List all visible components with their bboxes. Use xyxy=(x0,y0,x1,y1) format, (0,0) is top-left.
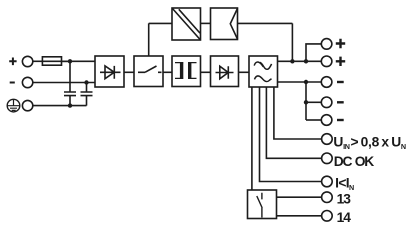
wire S1 to T1 xyxy=(163,71,172,73)
capacitor C2 (- to PE) xyxy=(81,83,93,106)
wire F1 to DC OK signal xyxy=(266,87,321,158)
node junction PE/C1 xyxy=(68,103,72,107)
terminal Uin signal xyxy=(322,134,333,145)
terminal output -2 xyxy=(321,97,332,108)
node junction -/C2 xyxy=(84,80,88,84)
terminal output -1 xyxy=(321,77,332,88)
feedback chevron symbol B1 xyxy=(230,8,237,39)
filter wave symbol top xyxy=(254,62,263,67)
label output -1 xyxy=(337,81,344,83)
terminal DC OK signal xyxy=(322,153,333,164)
wire F1 to relay K1 xyxy=(251,87,253,190)
svg-text:13: 13 xyxy=(337,191,352,206)
wire A1 to B1 xyxy=(201,22,211,24)
block D2 output rectifier box xyxy=(211,56,239,87)
terminal output -3 xyxy=(321,115,332,126)
wire K1 to terminal 13 xyxy=(277,196,322,198)
block T1 transformer box xyxy=(172,56,201,87)
wire U1 to S1 xyxy=(124,71,134,73)
label + (input plus) xyxy=(9,58,16,66)
transformer T1 core symbol xyxy=(175,63,197,79)
wire PE line xyxy=(33,105,87,107)
wire branch to terminal -2 xyxy=(306,101,321,103)
node junction B1/+rail xyxy=(290,59,294,63)
capacitor C1 (+ to PE) xyxy=(64,61,76,105)
wire - output rail xyxy=(278,81,322,83)
label output -2 xyxy=(337,101,344,103)
relay K1 box xyxy=(248,190,277,219)
terminal 13 xyxy=(322,192,333,203)
relay contact symbol xyxy=(257,193,262,218)
terminal input + xyxy=(22,56,32,66)
node junction - branch 2 xyxy=(304,100,308,104)
diode D2 xyxy=(216,66,234,79)
wire + input to fuse xyxy=(33,60,43,62)
block S1 switching stage box xyxy=(134,56,163,87)
converter diagonal symbol A1 xyxy=(172,8,201,40)
wire + output rail xyxy=(278,60,322,62)
wire - input to box U1 xyxy=(33,82,95,84)
switch contact S1 xyxy=(138,66,162,72)
node junction + branch xyxy=(304,59,308,63)
terminal input - xyxy=(22,77,32,87)
node junction - branch xyxy=(304,80,308,84)
wire control line from A1 to S1 xyxy=(149,23,172,56)
filter wave symbol bottom xyxy=(255,76,272,82)
wire - bus vertical xyxy=(305,82,307,120)
block B1 feedback box (chevron) xyxy=(211,8,238,40)
wire D2 to F1 xyxy=(239,71,250,73)
block A1 dc/dc control box (diagonal) xyxy=(172,8,201,40)
terminal I<In signal xyxy=(322,176,333,187)
terminal output +1 xyxy=(321,39,332,50)
terminal output +2 xyxy=(321,56,332,67)
wire branch to terminal +1 xyxy=(306,44,321,61)
wire K1 to terminal 14 xyxy=(277,215,322,217)
wire B1 to output + rail xyxy=(238,23,293,61)
block F1 output filter box xyxy=(249,56,278,87)
terminal input PE xyxy=(22,100,32,110)
ground PE symbol xyxy=(7,99,20,112)
wire branch to terminal -3 xyxy=(306,119,321,121)
fuse F1 xyxy=(42,60,70,62)
diode D1 xyxy=(100,66,121,79)
wire F1 to I<In signal xyxy=(260,87,322,182)
wire T1 to D2 xyxy=(201,71,211,73)
svg-text:14: 14 xyxy=(337,210,352,224)
node junction +/C1 xyxy=(68,59,72,63)
svg-text:DC OK: DC OK xyxy=(334,154,375,169)
terminal 14 xyxy=(322,211,333,222)
svg-text:I<IN: I<IN xyxy=(335,176,354,193)
wire F1 to Uin signal xyxy=(274,87,322,139)
svg-text:UIN> 0,8 x UN: UIN> 0,8 x UN xyxy=(333,134,406,151)
label output +2 xyxy=(336,57,345,66)
label - (input minus) xyxy=(10,82,15,84)
wire fuse to box U1 xyxy=(62,60,96,62)
label output -3 xyxy=(337,119,344,121)
label output +1 xyxy=(336,39,345,48)
block U1 input rectifier box xyxy=(95,56,124,87)
